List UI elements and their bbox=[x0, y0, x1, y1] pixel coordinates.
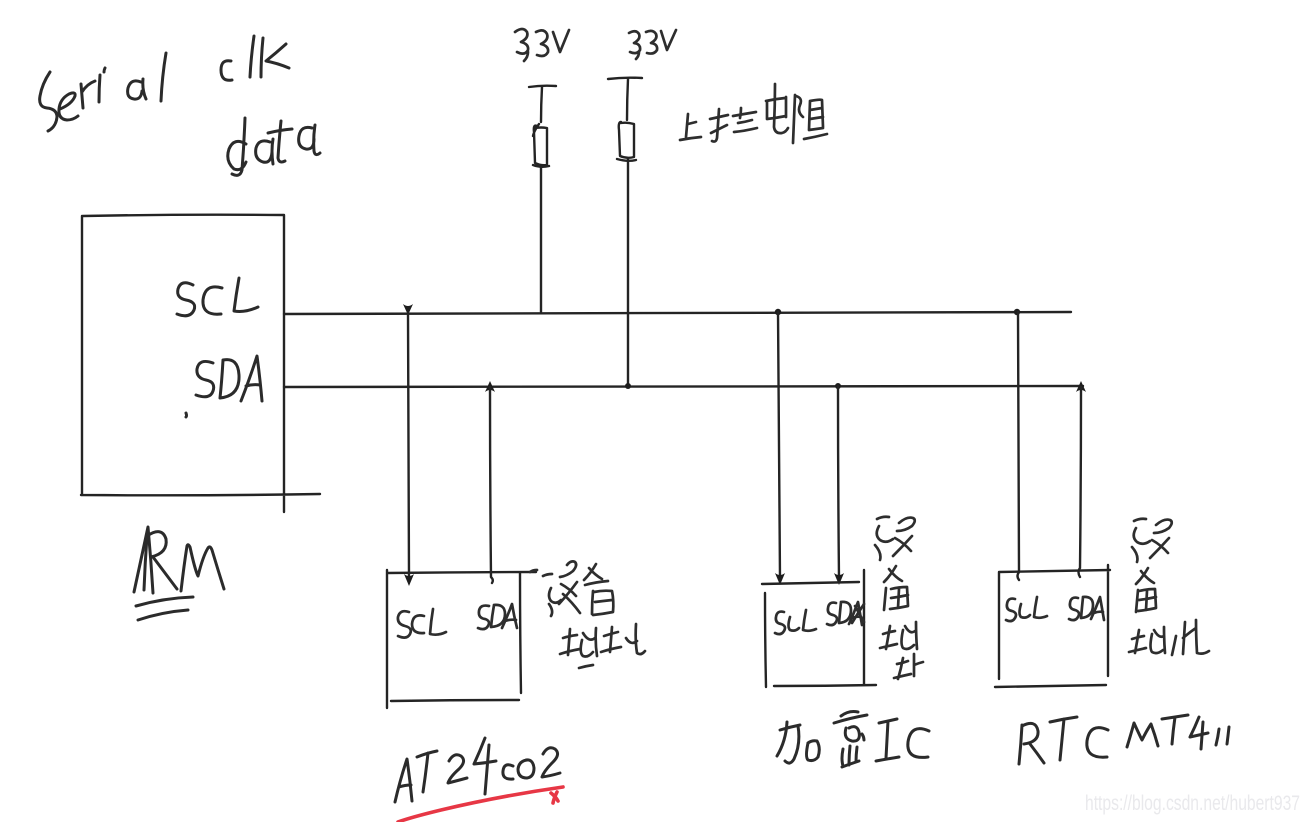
wire RTC SCL drop bbox=[1018, 312, 1020, 580]
label 加密IC bbox=[777, 712, 929, 768]
resistor R1 pull-up on SCL bbox=[529, 86, 556, 312]
label "data" (net name annotation for SDA) bbox=[228, 118, 320, 175]
red underline under AT24C02 bbox=[398, 787, 563, 822]
chip U2 AT24C02 box bbox=[387, 570, 536, 708]
chip U3 encrypt IC box bbox=[762, 570, 876, 687]
chip U1 ARM box bbox=[81, 215, 320, 512]
pin label SCL in RTC bbox=[1006, 597, 1047, 621]
pin label SDA in encrypt IC bbox=[827, 602, 864, 625]
junction dot SDA at resistor R2 bbox=[625, 383, 631, 389]
pin label SCL in AT24C02 bbox=[398, 609, 446, 638]
label "Serial clk" (net name annotation for SCL) bbox=[40, 36, 289, 131]
wire AT24C02 SDA drop bbox=[490, 387, 493, 583]
pin label .SDA in ARM bbox=[186, 356, 262, 417]
label AT24C02 (red underline) bbox=[395, 738, 560, 802]
pin label SDA in AT24C02 bbox=[478, 604, 517, 629]
annotation 设备地址 (encrypt IC) bbox=[875, 517, 923, 679]
pin label SCL in encrypt IC bbox=[775, 610, 816, 634]
pin label SDA in RTC bbox=[1069, 597, 1104, 620]
wire encrypt IC SCL drop bbox=[775, 312, 785, 585]
label 上拉电阻 bbox=[680, 84, 827, 143]
wire SDA bus bbox=[284, 386, 1083, 387]
chip U4 RTC box bbox=[995, 565, 1110, 687]
annotation 设备地址 (RTC) bbox=[1129, 519, 1209, 655]
annotation 设备地址 (AT24C02) bbox=[530, 561, 645, 668]
watermark bbox=[1085, 792, 1300, 815]
wire RTC SDA drop bbox=[1079, 387, 1082, 577]
junction arrow on SCL at AT24C02 drop bbox=[403, 304, 413, 315]
wire AT24C02 SCL drop bbox=[404, 313, 414, 586]
pin label SCL in ARM bbox=[177, 278, 258, 316]
junction arrow SDA at AT24C02 drop bbox=[485, 381, 495, 392]
junction dot SCL at encrypt IC drop bbox=[775, 309, 781, 315]
label RTC MT411 bbox=[1019, 715, 1229, 764]
junction dot SDA at encrypt IC drop bbox=[835, 383, 841, 389]
value label 3.3V (left) bbox=[515, 29, 569, 61]
junction dot SCL at RTC drop bbox=[1014, 309, 1020, 315]
junction arrow SDA at RTC drop bbox=[1076, 381, 1086, 392]
value label 3.3V (right) bbox=[629, 30, 676, 59]
label ARM (underlined) bbox=[134, 527, 224, 620]
svg-text:https://blog.csdn.net/hubert93: https://blog.csdn.net/hubert937 bbox=[1085, 792, 1300, 815]
wire SCL bus bbox=[284, 312, 1071, 314]
resistor R2 pull-up on SDA bbox=[608, 78, 642, 385]
wire encrypt IC SDA drop bbox=[834, 386, 844, 585]
